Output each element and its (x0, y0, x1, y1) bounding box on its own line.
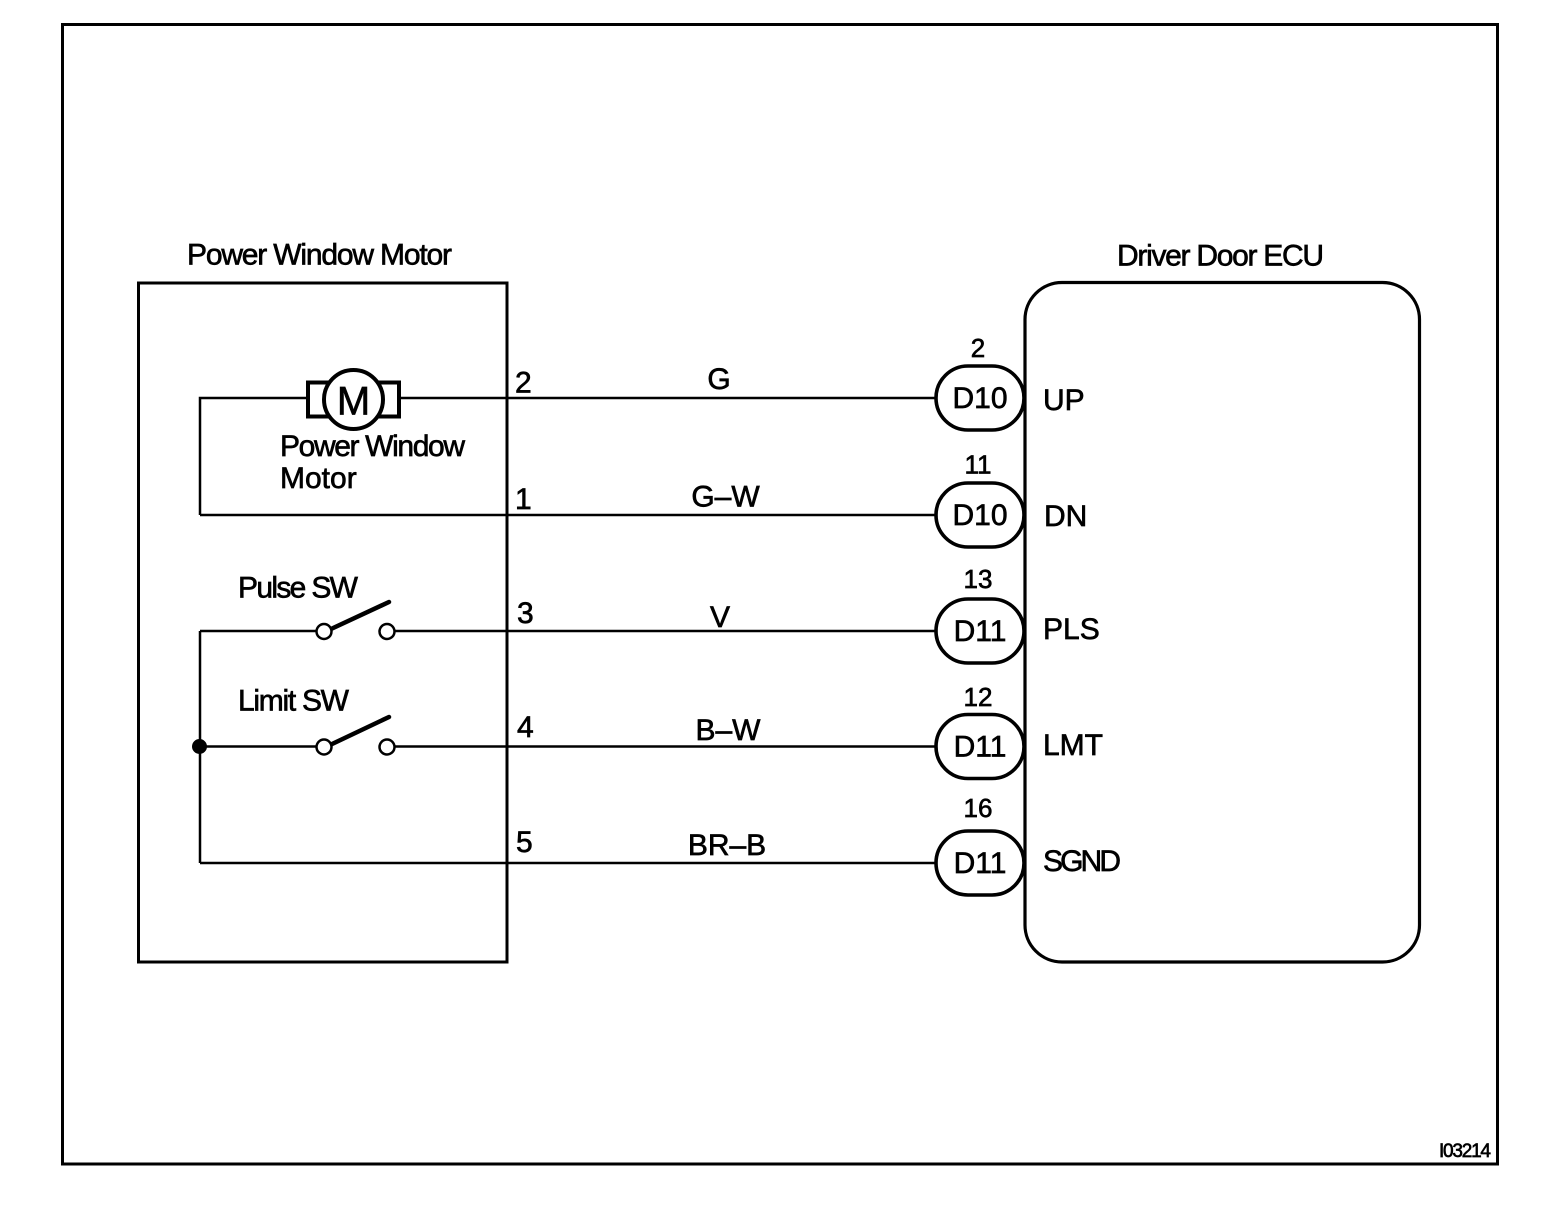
svg-text:11: 11 (965, 450, 992, 480)
connector D11 pin 12 (LMT) (936, 715, 1024, 779)
svg-text:D10: D10 (952, 382, 1007, 415)
connector D11 pin 16 (SGND) (936, 831, 1024, 895)
svg-text:Driver Door ECU: Driver Door ECU (1117, 240, 1324, 273)
svg-text:D11: D11 (954, 731, 1007, 764)
svg-text:2: 2 (515, 367, 532, 400)
svg-text:3: 3 (517, 597, 534, 630)
connector D10 pin 11 (DN) (936, 483, 1024, 547)
wire: switch common vertical (pin3 to pin5 bus) (199, 631, 202, 863)
svg-text:BR–B: BR–B (688, 829, 766, 862)
svg-text:PLS: PLS (1043, 613, 1100, 646)
wire 4: B-W from limit switch to connector D11 pin 12 (200, 745, 317, 748)
svg-text:1: 1 (515, 483, 532, 516)
svg-text:G: G (707, 363, 730, 396)
svg-text:DN: DN (1044, 500, 1087, 533)
svg-text:12: 12 (964, 682, 993, 712)
box: Power Window Motor assembly (139, 283, 508, 962)
switch SW2: Limit SW (317, 717, 395, 755)
svg-text:Motor: Motor (280, 462, 357, 495)
svg-text:Power Window: Power Window (280, 430, 465, 463)
svg-text:B–W: B–W (695, 714, 761, 747)
svg-text:16: 16 (964, 793, 993, 823)
svg-text:2: 2 (971, 333, 985, 363)
motor M (Power Window Motor) (308, 370, 399, 429)
svg-text:LMT: LMT (1043, 729, 1103, 762)
svg-text:G–W: G–W (691, 481, 760, 514)
wire 5: BR-B from common bus to connector D11 pin 16 (200, 862, 936, 865)
junction: limit switch tap on common bus (192, 739, 207, 754)
svg-text:M: M (337, 380, 370, 424)
svg-text:D11: D11 (954, 847, 1007, 880)
svg-text:13: 13 (964, 564, 993, 594)
svg-text:UP: UP (1043, 384, 1085, 417)
svg-text:SGND: SGND (1043, 845, 1121, 878)
svg-text:4: 4 (517, 711, 534, 744)
svg-text:Limit SW: Limit SW (238, 685, 350, 718)
svg-text:I03214: I03214 (1439, 1141, 1491, 1162)
box: Driver Door ECU (1025, 283, 1420, 963)
wire 1: G-W from motor loop to connector D10 pin 11 (200, 514, 936, 517)
svg-text:5: 5 (516, 826, 533, 859)
switch SW1: Pulse SW (317, 602, 395, 639)
svg-text:V: V (710, 601, 730, 634)
svg-text:Power Window Motor: Power Window Motor (187, 239, 452, 272)
connector D10 pin 2 (UP) (936, 366, 1024, 430)
connector D11 pin 13 (PLS) (936, 599, 1024, 663)
wire 3: V from pulse switch to connector D11 pin 13 (200, 630, 317, 633)
svg-text:D11: D11 (954, 615, 1007, 648)
svg-text:Pulse SW: Pulse SW (238, 572, 359, 605)
wire: motor left lead (node between motor and DN loop) (200, 398, 308, 515)
svg-text:D10: D10 (952, 499, 1007, 532)
wire 2: G from motor to connector D10 pin 2 (399, 397, 936, 400)
